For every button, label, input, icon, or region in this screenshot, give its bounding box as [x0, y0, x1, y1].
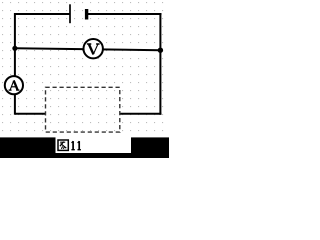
dashed box (unknown component) — [46, 87, 120, 132]
node right junction — [158, 48, 163, 53]
wire bottom-right — [120, 113, 162, 115]
wire left vertical (top section) — [14, 13, 16, 76]
wire right vertical — [159, 13, 161, 115]
wire left vertical (below ammeter) — [14, 94, 16, 114]
battery — [70, 4, 87, 23]
node left junction — [12, 46, 17, 51]
caption text 11 — [71, 141, 81, 150]
wire top-left (battery positive lead) — [14, 13, 70, 15]
caption text 图 — [58, 140, 68, 150]
ammeter A — [5, 76, 23, 94]
voltmeter V — [84, 39, 103, 58]
wire voltmeter branch — [15, 48, 161, 50]
wire bottom-left — [15, 113, 46, 115]
caption band — [0, 137, 169, 158]
wire top-right (battery negative lead) — [87, 13, 162, 15]
caption label box — [56, 137, 132, 153]
